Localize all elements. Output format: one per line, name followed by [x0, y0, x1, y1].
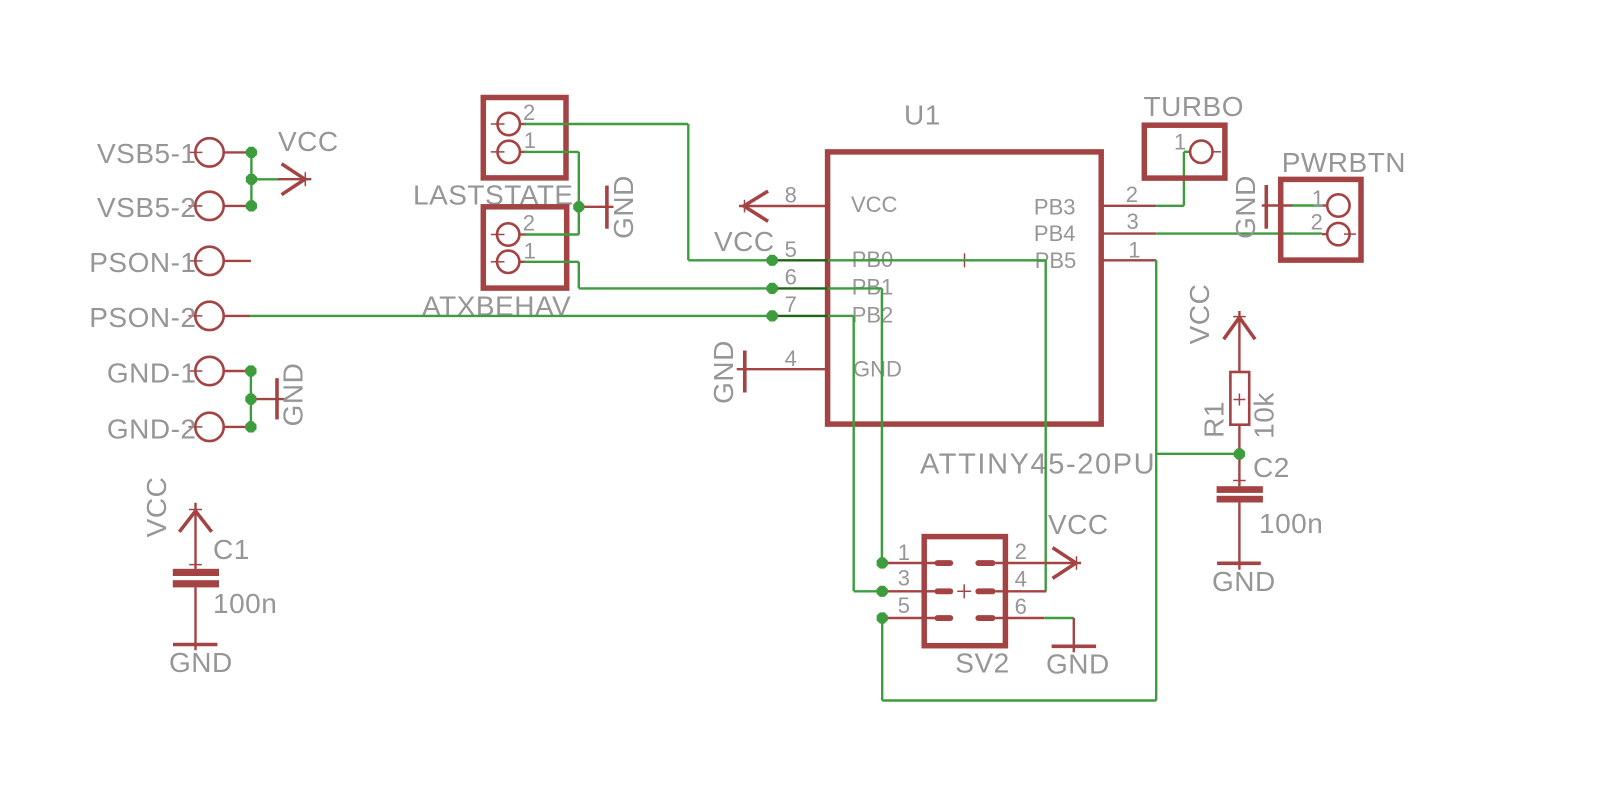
wire net to R1/C2 node [1156, 453, 1239, 455]
wire PSON-2 to U1 PB2 [250, 315, 772, 317]
ground GND at U1.4 [708, 340, 745, 404]
svg-text:GND-1: GND-1 [107, 358, 197, 389]
wire VSB5 vertical [250, 152, 252, 206]
wire SV2.6 to GND [1044, 617, 1074, 619]
connector LASTSTATE [413, 98, 574, 211]
svg-text:PB2: PB2 [852, 302, 894, 327]
wire to U1 PB0 [688, 259, 772, 261]
wire LASTSTATE.2 vertical [687, 124, 689, 260]
svg-text:100n: 100n [1259, 508, 1323, 539]
capacitor C2 100n [1217, 452, 1324, 539]
svg-text:SV2: SV2 [955, 648, 1009, 679]
connector ATXBEHAV [422, 207, 571, 322]
node VCC junction [246, 174, 257, 185]
supply VCC above R1 [1184, 284, 1254, 345]
pin PSON-1 [89, 247, 251, 278]
pin VSB5-1 [97, 138, 251, 169]
pin GND-2 [107, 413, 251, 445]
svg-text:GND: GND [169, 647, 233, 678]
wire PB4 to PWRBTN.2 [1156, 232, 1322, 234]
wire bottom horizontal [882, 699, 1156, 701]
wire GND net vertical [578, 152, 580, 235]
pin SV2.3 stub [882, 590, 935, 592]
svg-text:100n: 100n [213, 588, 277, 619]
svg-text:VCC: VCC [851, 192, 898, 217]
pin GND-1 [107, 357, 251, 389]
svg-text:VCC: VCC [278, 126, 339, 157]
svg-text:U1: U1 [904, 100, 941, 131]
pin VSB5-2 [97, 192, 251, 223]
ground GND at SV2.6 [1046, 618, 1110, 680]
svg-text:R1: R1 [1199, 401, 1230, 438]
svg-text:10k: 10k [1249, 392, 1280, 439]
svg-text:6: 6 [1015, 594, 1027, 619]
svg-text:1: 1 [898, 540, 910, 565]
wire PB1 vertical to SV2.1 [881, 288, 883, 563]
svg-text:PB4: PB4 [1034, 221, 1076, 246]
node GND-2 junction [245, 421, 256, 432]
pin U1.2 stub [1101, 205, 1156, 207]
svg-text:PSON-2: PSON-2 [89, 302, 196, 333]
wire PB0 through chip [828, 259, 1046, 261]
svg-text:GND: GND [853, 356, 902, 381]
svg-text:1: 1 [524, 238, 536, 263]
svg-text:3: 3 [898, 566, 910, 591]
node U1 pin7 junction [767, 310, 778, 321]
wire C1 to GND [194, 587, 196, 650]
svg-text:5: 5 [898, 593, 910, 618]
svg-text:1: 1 [1312, 186, 1324, 211]
supply VCC left [278, 126, 339, 194]
ground GND near LASTSTATE [579, 175, 639, 239]
resistor R1 10k [1199, 372, 1280, 439]
svg-text:C2: C2 [1253, 452, 1290, 483]
header SV2 [898, 537, 1027, 679]
svg-text:5: 5 [785, 237, 797, 262]
wire PB2 to SV2.3 [854, 590, 883, 592]
wire LASTSTATE.2 horizontal [524, 123, 688, 125]
svg-text:GND-2: GND-2 [107, 414, 197, 445]
pin SV2.6 stub [996, 617, 1045, 619]
pin SV2.5 stub [882, 617, 935, 619]
svg-text:VCC: VCC [1184, 284, 1215, 345]
ground GND below C2 [1212, 563, 1276, 597]
wire to U1 PB1 [579, 287, 772, 289]
node SV2.3 junction [877, 586, 888, 597]
wire VCC to R1 [1238, 311, 1240, 372]
svg-text:VSB5-1: VSB5-1 [97, 138, 197, 169]
svg-text:PB3: PB3 [1034, 194, 1076, 219]
svg-text:2: 2 [523, 211, 535, 236]
svg-text:GND: GND [1230, 175, 1261, 239]
wire TURBO vertical [1183, 152, 1185, 206]
svg-text:VSB5-2: VSB5-2 [97, 192, 197, 223]
wire VCC tap [251, 178, 281, 180]
wire LASTSTATE.1 horizontal [524, 151, 578, 153]
svg-text:GND: GND [1046, 649, 1110, 680]
node U1 pin5 junction [767, 255, 778, 266]
wire PB1 inside chip [828, 287, 882, 289]
svg-text:3: 3 [1127, 209, 1139, 234]
wire PB0 vertical to SV2.4 [1044, 260, 1046, 591]
svg-text:4: 4 [785, 346, 797, 371]
svg-text:6: 6 [785, 265, 797, 290]
node VSB5-1 junction [246, 147, 257, 158]
svg-text:GND: GND [278, 363, 309, 427]
node SV2.1 junction [877, 557, 888, 568]
wire VCC to C1 [194, 503, 196, 569]
svg-text:GND: GND [1212, 566, 1276, 597]
wire U1 pin6 overlap [772, 287, 827, 289]
svg-text:2: 2 [1311, 209, 1323, 234]
svg-text:VCC: VCC [141, 477, 172, 538]
wire C2 to GND [1238, 503, 1240, 570]
wire R1 to node [1238, 425, 1240, 487]
svg-text:2: 2 [1126, 182, 1138, 207]
pin SV2.4 stub [996, 590, 1047, 592]
wire ATXBEHAV.1 horizontal [524, 261, 578, 263]
svg-text:C1: C1 [213, 534, 250, 565]
svg-text:GND: GND [608, 175, 639, 239]
node R1/C2 junction [1234, 448, 1245, 459]
pin SV2.1 stub [882, 562, 935, 564]
pin U1.1 stub [1101, 259, 1156, 261]
svg-text:VCC: VCC [1048, 509, 1109, 540]
wire GND to PWRBTN.1 [1292, 204, 1323, 206]
wire U1 pin5 overlap [772, 259, 827, 261]
pin SV2.2 stub [996, 562, 1082, 564]
connector PWRBTN [1281, 147, 1406, 260]
svg-text:GND: GND [708, 340, 739, 404]
svg-text:TURBO: TURBO [1144, 91, 1245, 122]
ground GND near PWRBTN [1230, 175, 1293, 239]
supply VCC above C1 [141, 477, 211, 538]
ic U1 ATTINY45-20PU [785, 100, 1157, 481]
svg-text:1: 1 [1174, 130, 1186, 155]
pin U1.8 VCC supply arrow [714, 192, 828, 257]
wire SV2.5 vertical [881, 618, 883, 701]
node U1 pin6 junction [767, 283, 778, 294]
wire PB5 vertical long [1155, 260, 1157, 700]
node GND tap junction [245, 394, 256, 405]
svg-text:4: 4 [1015, 567, 1027, 592]
svg-text:ATTINY45-20PU: ATTINY45-20PU [920, 449, 1156, 481]
supply VCC at SV2.2 [1048, 509, 1109, 577]
pin U1.4 wire [737, 368, 828, 370]
wire ATXBEHAV.1 vertical [578, 262, 580, 289]
svg-text:2: 2 [1015, 539, 1027, 564]
pin U1.3 stub [1101, 232, 1156, 234]
svg-text:2: 2 [523, 100, 535, 125]
node LASTSTATE GND junction [573, 201, 584, 212]
wire PB2 inside chip [828, 315, 854, 317]
wire PB2 vertical [853, 316, 855, 591]
svg-text:VCC: VCC [714, 226, 775, 257]
connector TURBO [1144, 91, 1245, 178]
pin PSON-2 [89, 302, 250, 333]
svg-text:PSON-1: PSON-1 [89, 247, 196, 278]
svg-text:8: 8 [785, 183, 797, 208]
svg-text:7: 7 [785, 292, 797, 317]
node VSB5-2 junction [246, 200, 257, 211]
ground GND below C1 [169, 645, 233, 679]
svg-text:1: 1 [524, 128, 536, 153]
svg-text:PWRBTN: PWRBTN [1282, 147, 1406, 178]
capacitor C1 [173, 534, 277, 619]
wire PB3 to TURBO [1156, 205, 1184, 207]
wire GND vertical [250, 371, 252, 427]
svg-text:1: 1 [1128, 237, 1140, 262]
wire to ATXBEHAV.2 [524, 233, 578, 235]
supply GND left [251, 363, 309, 427]
wire U1 pin7 overlap [772, 315, 827, 317]
node SV2.5 junction [877, 612, 888, 623]
node GND-1 junction [245, 365, 256, 376]
wire into TURBO pin [1184, 151, 1191, 153]
